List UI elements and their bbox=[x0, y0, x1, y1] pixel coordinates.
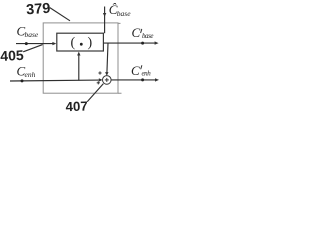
svg-text:base: base bbox=[142, 32, 153, 40]
svg-text:C: C bbox=[132, 25, 141, 40]
svg-text:407: 407 bbox=[65, 99, 88, 115]
svg-text:enh: enh bbox=[25, 70, 36, 79]
svg-text:): ) bbox=[88, 36, 93, 51]
svg-text:base: base bbox=[25, 30, 39, 39]
svg-text:379: 379 bbox=[26, 1, 51, 19]
svg-text:enh: enh bbox=[142, 70, 152, 78]
svg-text:(: ( bbox=[71, 36, 76, 51]
svg-text:base: base bbox=[117, 9, 131, 18]
svg-text:405: 405 bbox=[0, 47, 24, 64]
svg-text:C: C bbox=[131, 63, 140, 78]
